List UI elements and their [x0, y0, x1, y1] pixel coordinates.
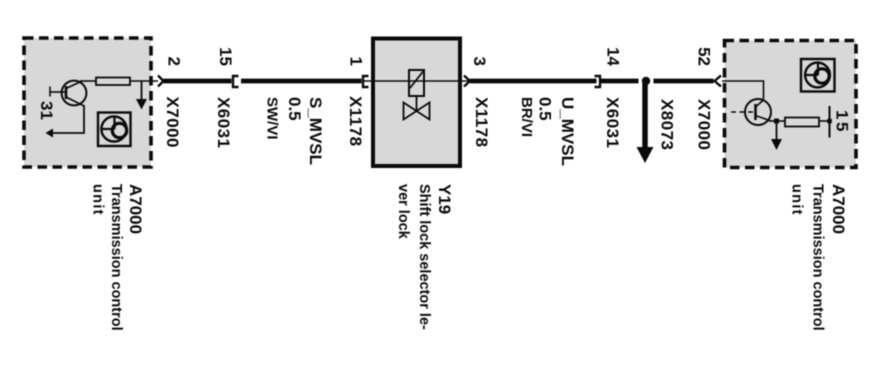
- connector X7000 pin52 chevron: [715, 76, 722, 87]
- svg-text:15: 15: [216, 47, 235, 66]
- valve bowtie: [404, 103, 417, 120]
- wire collector to resistor: [80, 80, 96, 82]
- junction arrow down (left box): [141, 81, 143, 100]
- junction square: [774, 119, 779, 124]
- transistor Q left: [50, 81, 86, 106]
- svg-text:0.5: 0.5: [285, 97, 304, 121]
- svg-text:X6031: X6031: [214, 97, 233, 148]
- emitter wire to resistor: [769, 120, 785, 122]
- svg-text:X1178: X1178: [346, 96, 365, 146]
- wire emitter to terminal 31: [53, 105, 84, 133]
- solenoid valve box Y19: [373, 39, 460, 167]
- wire X6031 to junction: [601, 79, 639, 84]
- branch X8073 arrow: [642, 83, 648, 149]
- wire junction to X7000: [654, 79, 714, 84]
- svg-text:31: 31: [37, 101, 56, 120]
- svg-text:Y19: Y19: [435, 184, 454, 214]
- wire resistor to pin 2: [130, 80, 158, 82]
- svg-text:BR/VI: BR/VI: [518, 97, 535, 137]
- control unit box A7000 (right): [725, 41, 857, 168]
- resistor (left box): [96, 78, 130, 86]
- resistor (right box): [785, 118, 819, 127]
- connector X6031 pin15 bracket: [233, 76, 239, 87]
- svg-text:0.5: 0.5: [536, 97, 555, 121]
- svg-text:Transmission control: Transmission control: [810, 184, 826, 331]
- svg-text:Transmission control: Transmission control: [108, 184, 124, 331]
- svg-text:X8073: X8073: [658, 99, 677, 150]
- wire pin52 into box to transistor: [722, 81, 764, 99]
- svg-text:unit: unit: [90, 184, 106, 216]
- svg-text:ver lock: ver lock: [395, 184, 411, 240]
- wire X1178 to X6031: [470, 79, 597, 84]
- motor symbol M (right box): [801, 59, 835, 92]
- terminal 31 arrow: [46, 129, 54, 138]
- svg-text:S_MVSL: S_MVSL: [306, 97, 325, 165]
- svg-text:Shift lock selector le-: Shift lock selector le-: [416, 184, 432, 330]
- svg-text:52: 52: [695, 47, 714, 66]
- connector X1178 pin3 chevron: [464, 76, 470, 87]
- svg-text:SW/VI: SW/VI: [264, 97, 281, 140]
- connector X6031 pin14 bracket: [595, 76, 601, 87]
- wire resistor to terminal 15: [819, 120, 830, 122]
- svg-text:X7000: X7000: [163, 97, 182, 148]
- connector X1178 pin1 bracket: [363, 76, 369, 87]
- terminal junction square: [827, 119, 832, 124]
- svg-text:2: 2: [165, 57, 184, 66]
- svg-text:unit: unit: [789, 184, 805, 216]
- control unit box A7000 (left): [24, 38, 151, 167]
- valve stem: [416, 96, 418, 111]
- terminal 15 tick: [829, 106, 831, 138]
- svg-text:X7000: X7000: [695, 99, 714, 150]
- down arrow (right box): [776, 121, 778, 140]
- transistor Q right: [731, 99, 771, 125]
- svg-text:A7000: A7000: [126, 184, 145, 234]
- connector X7000 pin2 chevron: [158, 76, 164, 87]
- wire X6031 to X1178: [241, 79, 362, 84]
- internal wire through Y19: [363, 80, 470, 82]
- svg-text:14: 14: [604, 47, 623, 66]
- svg-text:U_MVSL: U_MVSL: [558, 97, 577, 166]
- svg-text:A7000: A7000: [829, 184, 848, 234]
- junction dot: [642, 77, 650, 85]
- solenoid coil: [409, 70, 424, 96]
- svg-text:1: 1: [347, 57, 366, 66]
- svg-text:15: 15: [833, 110, 852, 134]
- svg-text:3: 3: [470, 57, 489, 66]
- svg-text:X6031: X6031: [603, 97, 622, 148]
- motor symbol M (left box): [98, 113, 131, 147]
- svg-text:X1178: X1178: [472, 97, 491, 147]
- wire pin2 to X6031: [164, 79, 232, 84]
